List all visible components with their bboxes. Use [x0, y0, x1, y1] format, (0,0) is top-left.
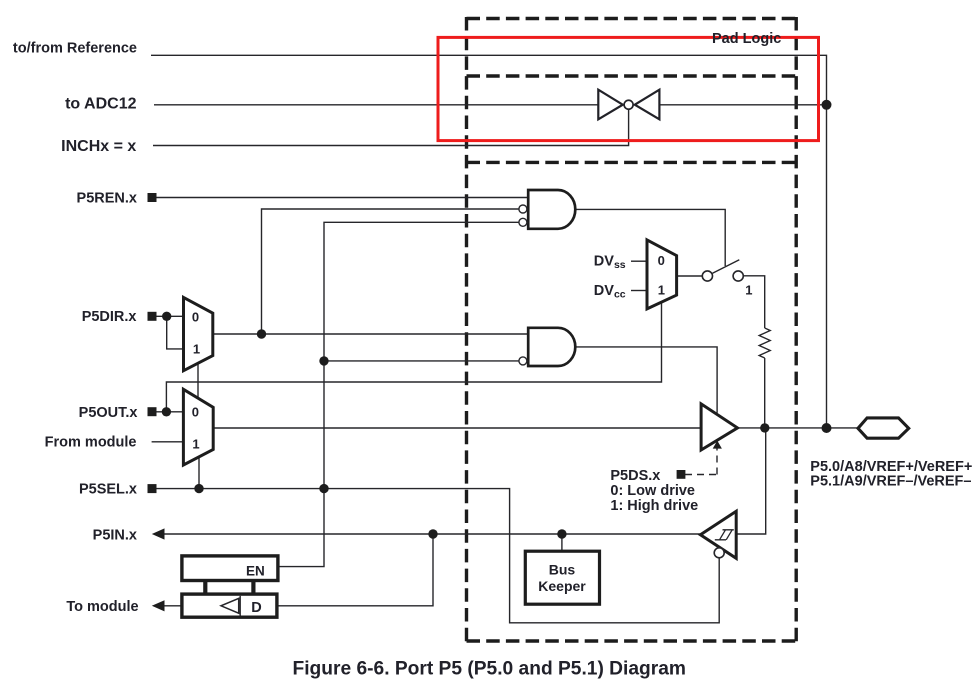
switch S1	[702, 271, 712, 281]
wire From module in1	[152, 441, 184, 443]
bubble U4 enable	[714, 548, 724, 558]
driver buffer U3	[701, 404, 737, 450]
svg-text:1: 1	[192, 436, 199, 451]
wire D latch input	[278, 534, 434, 606]
wire mux1 out to nand2	[213, 333, 528, 335]
svg-text:1: 1	[193, 342, 200, 357]
node P5SEL a	[194, 484, 203, 493]
svg-text:Pad Logic: Pad Logic	[712, 31, 781, 47]
bubble U2 in2	[519, 357, 527, 365]
bubble U1 in2	[519, 205, 527, 213]
node P5SEL b	[319, 484, 328, 493]
wire P5OUT in0	[156, 411, 183, 413]
bus keeper box	[525, 551, 599, 604]
svg-text:P5IN.x: P5IN.x	[93, 528, 137, 544]
svg-text:1: 1	[658, 282, 665, 297]
schmitt glyph	[715, 530, 734, 540]
svg-text:P5DIR.x: P5DIR.x	[82, 309, 137, 325]
svg-text:Keeper: Keeper	[538, 578, 586, 594]
svg-text:P5DS.x: P5DS.x	[610, 468, 660, 484]
node pad	[822, 423, 832, 433]
latch clock triangle	[221, 598, 239, 613]
mux M2 P5OUT	[183, 389, 213, 465]
wire P5IN	[164, 533, 700, 535]
pin P5OUT	[148, 407, 157, 416]
arrowhead P5IN	[152, 528, 165, 539]
wire nand1 out to switch	[575, 209, 725, 266]
mux M3 DV	[647, 240, 677, 309]
svg-text:P5.1/A9/VREF–/VeREF–: P5.1/A9/VREF–/VeREF–	[810, 473, 971, 489]
svg-text:P5OUT.x: P5OUT.x	[79, 405, 138, 421]
wire To module	[164, 605, 182, 607]
wire A nand1 in2	[262, 209, 519, 334]
arrowhead P5DS	[713, 441, 722, 449]
wire resistor to node	[764, 358, 766, 428]
svg-text:From module: From module	[45, 435, 137, 451]
node adc/ref	[822, 100, 832, 110]
red highlight box	[438, 37, 819, 140]
left labels	[13, 41, 139, 615]
wire switch lever	[713, 260, 740, 274]
wire P5DIR in0	[156, 315, 184, 317]
svg-text:to/from Reference: to/from Reference	[13, 41, 137, 57]
wire resistor branch	[743, 276, 765, 328]
wire INCHx	[153, 109, 629, 146]
pin squares	[148, 193, 157, 493]
svg-text:P5SEL.x: P5SEL.x	[79, 482, 137, 498]
P5DS dashed control	[685, 448, 717, 475]
node P5OUT	[162, 407, 171, 416]
pad hexagon	[858, 418, 909, 438]
pin square P5DS	[677, 470, 686, 479]
svg-text:P5REN.x: P5REN.x	[77, 191, 137, 207]
latch legs	[203, 581, 207, 595]
wire pad vertical	[826, 105, 828, 428]
node mux1 out	[257, 329, 266, 338]
svg-text:EN: EN	[246, 564, 265, 579]
wire P5REN	[156, 197, 528, 199]
pin P5DIR	[148, 312, 157, 321]
wire nand2 in2	[324, 360, 519, 362]
bubble U1 in3	[519, 218, 527, 226]
arrowhead To module	[152, 600, 165, 611]
wire dvcc stub	[631, 290, 647, 292]
svg-text:INCHx = x: INCHx = x	[61, 138, 136, 155]
svg-text:1: 1	[745, 283, 752, 298]
right labels	[810, 459, 972, 489]
wire B nand1 in3	[324, 222, 519, 488]
schmitt buffer U4	[700, 511, 736, 558]
mux M1 P5DIR	[184, 297, 213, 370]
latch EN box	[182, 556, 278, 581]
wire inter-mux select	[197, 363, 199, 398]
svg-text:0: 0	[192, 405, 199, 420]
wire dvss stub	[631, 260, 647, 262]
wire to/from Reference	[151, 55, 827, 105]
wire to ADC12	[154, 104, 827, 106]
wire P5DIR in1	[167, 316, 184, 349]
wire dvmux select	[166, 301, 661, 412]
node P5IN b	[557, 529, 566, 538]
svg-text:Figure 6-6. Port P5 (P5.0 and: Figure 6-6. Port P5 (P5.0 and P5.1) Diag…	[293, 659, 686, 680]
latch D box	[182, 594, 277, 617]
wire P5SEL	[156, 489, 719, 623]
svg-text:0: 0	[658, 253, 665, 268]
analog switch T1	[598, 90, 659, 120]
svg-text:0: Low drive: 0: Low drive	[610, 483, 695, 499]
nand gate U1	[528, 190, 575, 229]
svg-text:to ADC12: to ADC12	[65, 96, 137, 113]
svg-text:1: High drive: 1: High drive	[610, 498, 698, 514]
svg-text:D: D	[251, 600, 261, 616]
svg-text:0: 0	[192, 310, 199, 325]
node driver out	[760, 423, 769, 432]
svg-text:To module: To module	[66, 599, 138, 615]
wire bus keeper	[561, 534, 563, 551]
node P5IN a	[428, 529, 437, 538]
nand gate U2	[528, 328, 575, 366]
dashed box pad logic outer	[467, 17, 797, 643]
wire nand2 out to driver enable	[575, 347, 717, 413]
resistor R	[759, 328, 770, 358]
wire mux2 select	[198, 457, 200, 489]
wire mux2 out to driver	[213, 427, 701, 429]
wire EN to P5SEL	[278, 489, 324, 567]
svg-text:Bus: Bus	[549, 562, 576, 578]
wire dvmux out	[677, 275, 703, 277]
wire schmitt input	[736, 428, 766, 534]
pin P5SEL	[148, 484, 157, 493]
wire output node to pad	[738, 427, 858, 429]
node nand2 sel	[319, 356, 328, 365]
pin P5REN	[148, 193, 157, 202]
node P5DIR	[162, 312, 171, 321]
